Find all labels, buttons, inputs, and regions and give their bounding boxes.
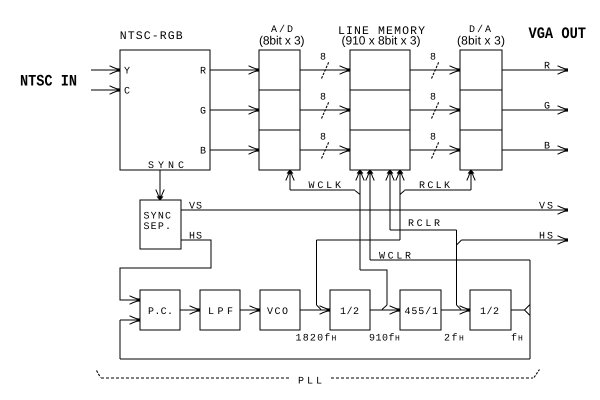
- arrow WCLR into memory bottom: [366, 170, 374, 180]
- svg-text:B: B: [200, 147, 206, 158]
- bus slash B A/D-memory: [322, 142, 330, 159]
- wire HS output 2fH: [462, 239, 567, 241]
- wire PLL feedback riser: [119, 320, 121, 359]
- bus slash G A/D-memory: [322, 102, 330, 119]
- svg-text:8: 8: [430, 53, 436, 64]
- svg-text:C: C: [124, 87, 130, 98]
- wire G decoder to A/D: [210, 109, 258, 111]
- svg-text:VGA OUT: VGA OUT: [529, 25, 587, 43]
- svg-text:NTSC IN: NTSC IN: [20, 73, 77, 91]
- arrow R bus into D/A: [450, 66, 461, 74]
- arrow R bus into memory: [340, 66, 351, 74]
- svg-text:HS: HS: [539, 232, 553, 243]
- junction RCLR tap on 2fH wire: [457, 305, 462, 310]
- wire fH vertical: [529, 260, 531, 359]
- wire R output: [502, 69, 566, 71]
- arrow into LPF: [190, 306, 201, 314]
- PLL boundary right tick: [534, 370, 540, 378]
- arrow WCLK into A/D bottom: [286, 170, 294, 180]
- wire G output: [502, 109, 566, 111]
- D/A divider 1: [460, 89, 502, 91]
- wire 1/2 to 455/1 910fH: [370, 309, 398, 311]
- junction WCLK branch tap: [355, 191, 360, 195]
- block D/A converter: [460, 50, 502, 170]
- svg-text:NTSC-RGB: NTSC-RGB: [120, 30, 183, 43]
- svg-text:VS: VS: [189, 202, 202, 213]
- wire RCLR horizontal 2fH: [390, 229, 457, 231]
- svg-text:VS: VS: [539, 202, 553, 213]
- arrow SYNC into sync separator: [156, 190, 164, 200]
- PLL dashed boundary right: [331, 377, 533, 379]
- svg-text:R: R: [544, 62, 550, 73]
- arrow RCLR into memory bottom: [386, 170, 394, 180]
- arrow WCLK into memory bottom: [356, 170, 364, 180]
- wire WCLK riser into A/D: [289, 170, 291, 190]
- block LINE MEMORY: [350, 50, 410, 170]
- svg-text:8: 8: [320, 93, 326, 104]
- arrow into second 1/2: [460, 306, 471, 314]
- svg-text:P.C.: P.C.: [148, 307, 173, 318]
- arrow G output: [558, 106, 569, 114]
- arrow R into A/D: [249, 66, 260, 74]
- wire VCO to 1/2 1820fH: [300, 309, 328, 311]
- wire RCLK riser from VCO output: [316, 240, 318, 305]
- svg-text:B: B: [544, 142, 550, 153]
- svg-text:455/1: 455/1: [405, 306, 439, 318]
- wire PLL feedback bottom: [120, 358, 530, 360]
- arrow feedback into P.C.: [130, 316, 141, 324]
- wire RCLR vertical into memory: [389, 170, 391, 230]
- wire PLL feedback into P.C.: [120, 319, 138, 321]
- svg-text:(910 x 8bit x 3): (910 x 8bit x 3): [342, 33, 421, 47]
- svg-text:8: 8: [430, 133, 436, 144]
- wire RCLK branch to D/A: [405, 189, 472, 191]
- arrow B bus into memory: [340, 146, 351, 154]
- svg-text:1/2: 1/2: [480, 306, 499, 318]
- svg-text:8: 8: [320, 53, 326, 64]
- A/D divider 1: [259, 89, 300, 91]
- svg-text:R: R: [200, 67, 206, 78]
- wire LPF to VCO: [240, 309, 258, 311]
- wire 455/1 to 1/2 2fH: [441, 309, 468, 311]
- svg-text:1/2: 1/2: [340, 306, 359, 318]
- arrow Y into decoder: [110, 66, 121, 74]
- arrow into 455/1: [390, 306, 401, 314]
- arrow G into A/D: [249, 106, 260, 114]
- svg-text:(8bit x 3): (8bit x 3): [457, 33, 505, 47]
- wire B decoder to A/D: [210, 149, 258, 151]
- block SYNC SEP: [140, 200, 181, 249]
- svg-text:1820fH: 1820fH: [296, 333, 338, 345]
- bus slash R A/D-memory: [322, 62, 330, 79]
- svg-text:PLL: PLL: [298, 377, 322, 388]
- svg-text:2fH: 2fH: [444, 333, 465, 345]
- wire RCLK horizontal 1820fH: [317, 239, 401, 241]
- arrow into first 1/2: [320, 306, 331, 314]
- arrow HS into P.C.: [130, 296, 141, 304]
- svg-text:VCO: VCO: [267, 307, 288, 318]
- svg-text:SYNC: SYNC: [144, 212, 172, 223]
- block LPF: [200, 290, 240, 330]
- svg-text:LPF: LPF: [208, 307, 233, 318]
- svg-text:SEP.: SEP.: [144, 222, 172, 233]
- wire 1/2 output fH: [511, 309, 525, 311]
- block P.C. phase comparator: [140, 290, 180, 330]
- junction fH split: [525, 305, 531, 316]
- block divider 1/2 second: [470, 290, 511, 330]
- A/D divider 2: [259, 129, 300, 131]
- svg-text:910fH: 910fH: [369, 333, 400, 345]
- bus slash R memory-D/A: [432, 62, 440, 79]
- block divider 1/2 first: [330, 290, 370, 330]
- wire WCLK vertical into memory: [359, 170, 361, 270]
- arrow C into decoder: [110, 86, 121, 94]
- wire WCLK branch to A/D: [290, 189, 355, 191]
- arrow VS output: [558, 206, 569, 214]
- wire SYNC drop to sync separator: [159, 170, 161, 198]
- bus slash B memory-D/A: [432, 142, 440, 159]
- block NTSC-RGB decoder: [120, 50, 210, 170]
- junction RCLK branch tap: [400, 191, 405, 195]
- bus B memory to D/A: [410, 149, 459, 151]
- svg-text:Y: Y: [124, 67, 130, 78]
- wire RCLR riser from 455/1 output: [456, 230, 458, 305]
- wire HS from sync separator down to P.C.: [120, 240, 211, 300]
- wire RCLK vertical into memory: [399, 170, 401, 240]
- block divider 455/1: [400, 290, 441, 330]
- wire WCLR horizontal fH: [370, 259, 530, 261]
- PLL boundary left tick: [97, 371, 101, 378]
- arrow B bus into D/A: [450, 146, 461, 154]
- svg-text:G: G: [200, 107, 206, 118]
- svg-text:8: 8: [430, 93, 436, 104]
- arrow B output: [558, 146, 569, 154]
- wire VS to right edge: [181, 209, 566, 211]
- arrow into VCO: [250, 306, 261, 314]
- wire P.C. to LPF: [180, 309, 198, 311]
- D/A divider 2: [460, 129, 502, 131]
- bus G A/D to memory: [300, 109, 349, 111]
- arrow HS output: [558, 236, 569, 244]
- wire RCLK riser into D/A: [470, 170, 472, 190]
- block VCO: [260, 290, 300, 330]
- arrow G bus into D/A: [450, 106, 461, 114]
- bus R A/D to memory: [300, 69, 349, 71]
- wire WCLK link lower: [360, 270, 387, 305]
- LINE MEMORY divider 2: [350, 129, 410, 131]
- PLL dashed boundary left: [101, 377, 289, 379]
- svg-text:8: 8: [320, 133, 326, 144]
- wire B output: [502, 149, 566, 151]
- arrow G bus into memory: [340, 106, 351, 114]
- junction WCLK tap on 910fH wire: [382, 305, 387, 310]
- wire C input: [91, 89, 119, 91]
- svg-text:(8bit x 3): (8bit x 3): [259, 33, 305, 47]
- junction RCLK tap on 1820fH wire: [317, 305, 322, 310]
- bus slash G memory-D/A: [432, 102, 440, 119]
- wire R decoder to A/D: [210, 69, 258, 71]
- arrow R output: [558, 66, 569, 74]
- wire Y input: [91, 69, 119, 71]
- LINE MEMORY divider 1: [350, 89, 410, 91]
- bus B A/D to memory: [300, 149, 349, 151]
- svg-text:HS: HS: [189, 232, 202, 243]
- block A/D converter: [259, 50, 300, 170]
- svg-text:G: G: [544, 102, 550, 113]
- arrow B into A/D: [249, 146, 260, 154]
- arrow RCLK into D/A bottom: [467, 170, 475, 180]
- svg-text:fH: fH: [511, 333, 524, 345]
- arrow RCLK into memory bottom: [396, 170, 404, 180]
- bus R memory to D/A: [410, 69, 459, 71]
- wire WCLR vertical into memory: [369, 170, 371, 260]
- bus G memory to D/A: [410, 109, 459, 111]
- junction HS output tap: [457, 240, 462, 245]
